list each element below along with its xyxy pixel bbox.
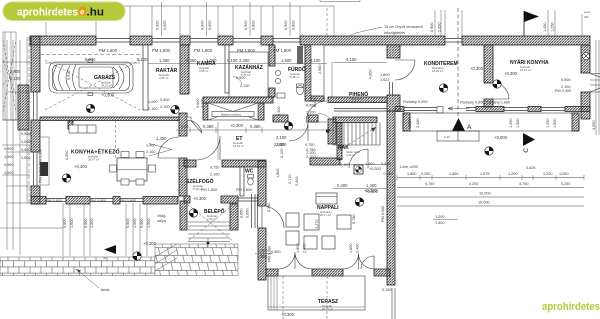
svg-text:0,600: 0,600 xyxy=(196,98,200,108)
svg-text:1,850: 1,850 xyxy=(407,172,417,176)
svg-text:0,380: 0,380 xyxy=(267,202,271,212)
piheno left wall xyxy=(328,97,387,103)
svg-text:1,500: 1,500 xyxy=(4,155,14,159)
furdo bottom wall xyxy=(273,115,288,122)
brick walkway horizontal xyxy=(0,257,155,276)
svg-text:0,625: 0,625 xyxy=(526,166,536,170)
svg-text:1,800: 1,800 xyxy=(349,243,353,253)
top boundary line xyxy=(22,6,334,37)
level symbol belepo xyxy=(189,209,197,217)
szelfogo-wc divider xyxy=(240,167,244,196)
level symbol nappali xyxy=(355,198,363,206)
svg-text:1,800: 1,800 xyxy=(296,243,300,253)
svg-text:0,250: 0,250 xyxy=(421,172,431,176)
brick walkway slanted at entry xyxy=(155,244,238,276)
svg-text:0,600: 0,600 xyxy=(208,20,212,30)
stair arrow xyxy=(340,127,376,150)
top dim verticals with rotated labels xyxy=(162,2,555,36)
left exterior wall segments xyxy=(31,36,40,92)
svg-text:A-19: A-19 xyxy=(444,135,450,139)
svg-text:0,480: 0,480 xyxy=(381,162,391,166)
section marker A xyxy=(452,118,465,131)
svg-text:aprohirdetes: aprohirdetes xyxy=(542,301,600,313)
svg-text:1,800: 1,800 xyxy=(380,73,390,77)
svg-text:1,400: 1,400 xyxy=(156,136,167,141)
kitchen-ET wall xyxy=(179,135,187,137)
svg-text:0,360: 0,360 xyxy=(250,124,261,129)
svg-text:3,16 m²: 3,16 m² xyxy=(193,187,203,191)
door arc furdo-ET xyxy=(289,122,308,141)
svg-text:6,79 m²: 6,79 m² xyxy=(241,73,251,77)
garage dashed diagonals xyxy=(45,60,140,110)
svg-text:1,200: 1,200 xyxy=(257,248,268,253)
svg-text:PM 1,800: PM 1,800 xyxy=(236,188,252,192)
left ramp strip xyxy=(3,32,16,120)
dining table xyxy=(117,158,147,181)
svg-text:1,800: 1,800 xyxy=(276,168,280,178)
svg-text:9,24 m²: 9,24 m² xyxy=(351,100,361,104)
svg-text:0,900: 0,900 xyxy=(244,20,248,30)
svg-text:0,900: 0,900 xyxy=(84,218,88,228)
svg-text:1,500: 1,500 xyxy=(178,124,189,129)
svg-text:PM 1,800: PM 1,800 xyxy=(273,48,292,53)
right exterior wall xyxy=(581,45,590,73)
level symbol kitchen door xyxy=(171,105,179,113)
belepo side walls xyxy=(180,201,187,230)
svg-text:PM 0,900: PM 0,900 xyxy=(555,89,571,93)
svg-text:2,100: 2,100 xyxy=(148,107,158,111)
raktar-kamra wall xyxy=(180,45,189,94)
svg-text:1,500: 1,500 xyxy=(21,140,31,144)
svg-text:0,900: 0,900 xyxy=(126,218,130,228)
svg-text:PM 0,900: PM 0,900 xyxy=(381,206,385,222)
svg-text:2,100: 2,100 xyxy=(201,98,205,108)
svg-text:0,900: 0,900 xyxy=(63,218,67,228)
extension lines from windows to top chain xyxy=(46,6,582,36)
svg-text:PM 1,800: PM 1,800 xyxy=(201,188,217,192)
svg-text:1,850: 1,850 xyxy=(408,118,412,128)
furdo door circles xyxy=(275,70,280,75)
svg-text:0,400: 0,400 xyxy=(340,163,350,167)
konditerem-nyari divider xyxy=(484,45,493,83)
svg-text:2,980: 2,980 xyxy=(318,64,322,74)
svg-text:26,57 m²: 26,57 m² xyxy=(88,158,99,162)
svg-text:5,38 m²: 5,38 m² xyxy=(290,75,300,79)
svg-text:1,200: 1,200 xyxy=(543,172,553,176)
svg-text:1,850: 1,850 xyxy=(449,172,459,176)
entry arrow xyxy=(448,107,469,110)
svg-text:1,500: 1,500 xyxy=(435,221,445,225)
svg-text:hőszigetelés: hőszigetelés xyxy=(384,31,405,35)
svg-text:2,100: 2,100 xyxy=(240,84,250,88)
level symbol kitchen xyxy=(62,174,70,182)
furdo radiator xyxy=(297,46,303,64)
door arc into konditerem xyxy=(395,60,415,80)
svg-text:40: 40 xyxy=(103,256,107,260)
svg-text:PM 1,800: PM 1,800 xyxy=(194,48,213,53)
svg-text:2,400: 2,400 xyxy=(239,58,250,63)
svg-text:Beépített szekrény: Beépített szekrény xyxy=(221,114,242,117)
svg-text:4,750: 4,750 xyxy=(425,182,435,186)
svg-text:10,000: 10,000 xyxy=(479,192,491,196)
svg-text:2,400: 2,400 xyxy=(295,176,299,186)
long east wall of middle column xyxy=(387,45,400,58)
nappali west wall xyxy=(258,161,266,206)
svg-text:2,600: 2,600 xyxy=(10,69,21,74)
svg-text:Világ.: Világ. xyxy=(157,214,166,218)
svg-text:Párkány 0,900 Párkány 0,900: Párkány 0,900 Párkány 0,900 xyxy=(460,101,510,105)
belepo steps xyxy=(188,222,230,242)
porch slab xyxy=(403,113,579,131)
svg-text:Leier o200: Leier o200 xyxy=(400,165,418,169)
svg-text:+0,000: +0,000 xyxy=(494,135,508,140)
svg-text:1,500: 1,500 xyxy=(21,156,31,160)
svg-text:2,100: 2,100 xyxy=(160,105,170,109)
dashed line top center xyxy=(326,8,328,37)
svg-text:2,100: 2,100 xyxy=(306,111,316,115)
svg-text:C: C xyxy=(523,148,530,153)
right door porch xyxy=(590,74,600,93)
svg-text:PM 1,800: PM 1,800 xyxy=(99,48,118,53)
svg-text:4,32 m²: 4,32 m² xyxy=(346,153,356,157)
kamra-kazanhaz thin wall xyxy=(225,45,229,93)
wall vent symbol xyxy=(582,52,589,59)
level symbol section area xyxy=(485,147,493,155)
svg-text:16,36 m²: 16,36 m² xyxy=(432,69,443,73)
wc toilet xyxy=(248,178,254,185)
svg-text:+0,300: +0,300 xyxy=(74,164,88,169)
svg-text:Járda: Járda xyxy=(100,288,110,292)
furdo shaft wall xyxy=(305,45,311,101)
kazanhaz-furdo wall xyxy=(269,45,275,66)
svg-text:1,460: 1,460 xyxy=(543,22,547,32)
svg-text:A: A xyxy=(467,124,472,131)
svg-text:e: e xyxy=(80,8,85,17)
sofa set in nappali xyxy=(286,193,351,249)
svg-text:1,575: 1,575 xyxy=(480,172,490,176)
svg-text:0,600: 0,600 xyxy=(252,20,256,30)
left wall windows xyxy=(34,92,38,186)
section marker C xyxy=(523,133,535,146)
svg-text:1,500: 1,500 xyxy=(147,218,151,228)
svg-text:0,100: 0,100 xyxy=(280,148,284,158)
svg-text:PM 1,800: PM 1,800 xyxy=(237,48,256,53)
svg-text:1,000: 1,000 xyxy=(148,100,158,104)
level symbol furdo xyxy=(284,122,292,130)
svg-text:2,100: 2,100 xyxy=(561,85,571,89)
svg-text:1,500: 1,500 xyxy=(516,118,520,128)
svg-text:0,600: 0,600 xyxy=(292,20,296,30)
side window right of belepo xyxy=(252,194,258,228)
svg-text:0,600: 0,600 xyxy=(246,208,250,218)
svg-text:0,900: 0,900 xyxy=(160,98,170,102)
stair rail hatched xyxy=(337,123,342,160)
door arc RAK xyxy=(349,149,368,168)
nappali south wall chunks xyxy=(266,269,278,276)
kazanhaz room inner lines xyxy=(229,52,268,97)
svg-text:16,43 m²: 16,43 m² xyxy=(520,68,531,72)
svg-text:2,100: 2,100 xyxy=(306,151,316,155)
built-in wardrobe box xyxy=(208,103,258,120)
flag symbol xyxy=(523,11,525,36)
svg-text:0,100: 0,100 xyxy=(227,58,238,63)
door arc kitchen-ET xyxy=(158,137,179,158)
svg-text:PM 1,800: PM 1,800 xyxy=(152,48,171,53)
dashed line below terrace xyxy=(283,276,327,319)
svg-text:0,900: 0,900 xyxy=(430,22,434,32)
svg-text:0,900: 0,900 xyxy=(21,148,31,152)
svg-text:+0,300: +0,300 xyxy=(143,241,157,246)
svg-text:10,81 m²: 10,81 m² xyxy=(233,144,244,148)
door arc szelfogo-ET xyxy=(196,136,220,160)
left gate wall hatched xyxy=(18,85,29,130)
svg-text:3,05 m²: 3,05 m² xyxy=(199,69,209,73)
svg-text:PM 0,900: PM 0,900 xyxy=(120,199,136,203)
svg-text:0,360: 0,360 xyxy=(186,58,197,63)
svg-text:10,000: 10,000 xyxy=(478,201,490,205)
svg-text:28,17 m²: 28,17 m² xyxy=(320,213,331,217)
bathroom fixtures xyxy=(277,84,304,98)
svg-text:PM 0,900: PM 0,900 xyxy=(90,199,106,203)
svg-text:+0,300: +0,300 xyxy=(193,196,207,201)
svg-text:+0,300: +0,300 xyxy=(230,123,244,128)
svg-text:2,050: 2,050 xyxy=(438,22,442,32)
level symbol garage xyxy=(86,104,94,112)
svg-text:2,100: 2,100 xyxy=(276,135,287,140)
watermark pill top left xyxy=(3,2,125,21)
garage-raktar thin wall xyxy=(143,45,148,110)
svg-text:0,100: 0,100 xyxy=(137,57,148,62)
svg-text:0,900: 0,900 xyxy=(271,250,281,254)
svg-text:1,200: 1,200 xyxy=(508,172,518,176)
svg-text:4,000: 4,000 xyxy=(369,69,373,79)
bottom left rotated dims xyxy=(0,203,147,256)
svg-text:0,900: 0,900 xyxy=(156,20,160,30)
svg-text:3,05 m²: 3,05 m² xyxy=(159,76,169,80)
svg-text:0,150: 0,150 xyxy=(382,288,392,292)
ET south wall xyxy=(184,160,196,167)
door arc into nappali xyxy=(262,206,284,228)
svg-text:2,100: 2,100 xyxy=(210,173,220,177)
kazanhaz bottom wall xyxy=(203,97,273,103)
svg-text:+0,300: +0,300 xyxy=(470,66,484,71)
svg-text:vályú: vályú xyxy=(157,219,166,223)
svg-text:26,77 m²: 26,77 m² xyxy=(322,307,333,311)
svg-text:PM 0,900: PM 0,900 xyxy=(268,246,272,262)
svg-text:1,250: 1,250 xyxy=(551,22,555,32)
svg-text:6,070: 6,070 xyxy=(85,57,96,62)
svg-text:5,780: 5,780 xyxy=(352,214,356,224)
svg-text:1,500: 1,500 xyxy=(70,218,74,228)
door arc into nyari konyha xyxy=(493,83,509,99)
svg-text:2,46 m²: 2,46 m² xyxy=(207,217,217,221)
kitchen dark unit xyxy=(40,162,48,176)
right section bottom wall chunks xyxy=(395,107,404,112)
svg-text:1,250: 1,250 xyxy=(546,118,550,128)
svg-text:0,250: 0,250 xyxy=(469,182,479,186)
svg-text:1,050: 1,050 xyxy=(559,172,569,176)
svg-text:0,900: 0,900 xyxy=(4,163,14,167)
szelfogo bottom wall xyxy=(184,196,190,203)
belepo canopy dashed xyxy=(187,204,234,242)
svg-text:4,750: 4,750 xyxy=(519,182,529,186)
chairs xyxy=(110,152,156,186)
svg-text:1,350: 1,350 xyxy=(159,58,170,63)
kitchen counter xyxy=(69,125,96,133)
door arc piheno hall xyxy=(306,101,327,122)
svg-text:.hu: .hu xyxy=(87,7,105,19)
wardrobe side walls xyxy=(203,103,208,120)
stair top hatched band xyxy=(333,117,377,123)
walkway arrow triangle xyxy=(104,245,116,254)
svg-text:1,500: 1,500 xyxy=(553,118,557,128)
svg-text:0,900: 0,900 xyxy=(284,20,288,30)
svg-text:3,050: 3,050 xyxy=(592,120,596,130)
svg-text:aprohirdetes: aprohirdetes xyxy=(17,7,78,19)
level symbol nyari konyha xyxy=(493,80,501,88)
svg-text:Leier: Leier xyxy=(584,10,590,14)
svg-text:0,250: 0,250 xyxy=(561,182,571,186)
level symbol walkway xyxy=(133,252,141,260)
right edge dim lines xyxy=(596,40,599,135)
svg-text:0,600: 0,600 xyxy=(163,20,167,30)
kitchen bottom windows xyxy=(46,199,143,202)
svg-text:0,380: 0,380 xyxy=(203,124,214,129)
svg-text:0,650: 0,650 xyxy=(240,208,244,218)
svg-text:1,600: 1,600 xyxy=(281,58,292,63)
level symbol konditerem xyxy=(439,84,447,92)
svg-text:5,915: 5,915 xyxy=(67,70,71,80)
svg-text:4,000: 4,000 xyxy=(65,150,69,160)
svg-text:0,750: 0,750 xyxy=(210,166,220,170)
svg-text:4,100: 4,100 xyxy=(346,57,357,62)
svg-text:+0,300: +0,300 xyxy=(369,167,381,171)
svg-text:1,622: 1,622 xyxy=(380,78,390,82)
section line A dashed xyxy=(457,8,459,118)
svg-text:0,100: 0,100 xyxy=(310,58,321,63)
svg-text:1,500: 1,500 xyxy=(90,218,94,228)
car in garage xyxy=(49,60,133,96)
svg-text:PM 0,900: PM 0,900 xyxy=(39,167,43,183)
svg-text:0,900: 0,900 xyxy=(306,104,316,108)
svg-text:2,400: 2,400 xyxy=(276,142,287,147)
nappali north wall xyxy=(310,158,340,165)
garage-kitchen divider wall xyxy=(40,117,179,121)
svg-text:WC: WC xyxy=(245,169,254,175)
stair treads xyxy=(333,123,380,146)
svg-text:2,400: 2,400 xyxy=(303,243,307,253)
svg-text:2,100: 2,100 xyxy=(10,76,21,81)
svg-text:2,100: 2,100 xyxy=(146,150,156,154)
top exterior wall segments xyxy=(30,36,96,45)
svg-text:0,900: 0,900 xyxy=(21,132,31,136)
svg-text:+0,300: +0,300 xyxy=(281,312,295,317)
svg-text:1,400: 1,400 xyxy=(365,162,375,166)
svg-text:1,500: 1,500 xyxy=(257,254,268,259)
svg-text:Párkány 0,000: Párkány 0,000 xyxy=(403,100,428,104)
svg-text:+0,300: +0,300 xyxy=(504,71,518,76)
svg-text:200: 200 xyxy=(584,15,589,19)
stair door arc xyxy=(361,256,374,269)
svg-text:0,750: 0,750 xyxy=(305,143,315,147)
window frame box xyxy=(437,107,443,114)
svg-text:1,500: 1,500 xyxy=(4,171,14,175)
svg-text:0,900: 0,900 xyxy=(4,147,14,151)
svg-text:0,900: 0,900 xyxy=(201,20,205,30)
svg-text:0,400: 0,400 xyxy=(337,183,348,188)
svg-text:+0,300: +0,300 xyxy=(364,188,378,193)
svg-text:+0,300: +0,300 xyxy=(101,93,115,98)
top leader box xyxy=(320,0,360,2)
svg-text:2,400: 2,400 xyxy=(356,243,360,253)
svg-text:3,270: 3,270 xyxy=(315,219,319,229)
svg-text:PM 0,900: PM 0,900 xyxy=(46,199,62,203)
svg-text:PM 0,900: PM 0,900 xyxy=(39,149,43,165)
svg-text:0,900: 0,900 xyxy=(561,78,571,82)
svg-text:15 cm Dryvit rendszerű: 15 cm Dryvit rendszerű xyxy=(384,25,423,29)
left site dim lines xyxy=(2,37,30,255)
svg-text:34,10 m²: 34,10 m² xyxy=(101,84,112,88)
right section bottom windows xyxy=(404,108,565,111)
downpipe lines xyxy=(392,288,395,319)
terasz outline xyxy=(268,276,365,310)
nappali terrace doors xyxy=(278,252,374,269)
svg-text:0,480: 0,480 xyxy=(384,172,394,176)
svg-text:2,400: 2,400 xyxy=(416,118,420,128)
svg-text:2,400: 2,400 xyxy=(277,106,281,116)
top wall windows xyxy=(96,39,462,43)
svg-text:1,500: 1,500 xyxy=(133,218,137,228)
kitchen bottom wall segments xyxy=(31,197,46,205)
svg-text:2,170: 2,170 xyxy=(288,174,292,184)
svg-text:1,200: 1,200 xyxy=(435,215,445,219)
svg-text:1,250: 1,250 xyxy=(509,118,513,128)
chimney block xyxy=(354,165,363,174)
svg-text:0,900: 0,900 xyxy=(140,218,144,228)
door leaf divider-ET xyxy=(191,121,202,134)
